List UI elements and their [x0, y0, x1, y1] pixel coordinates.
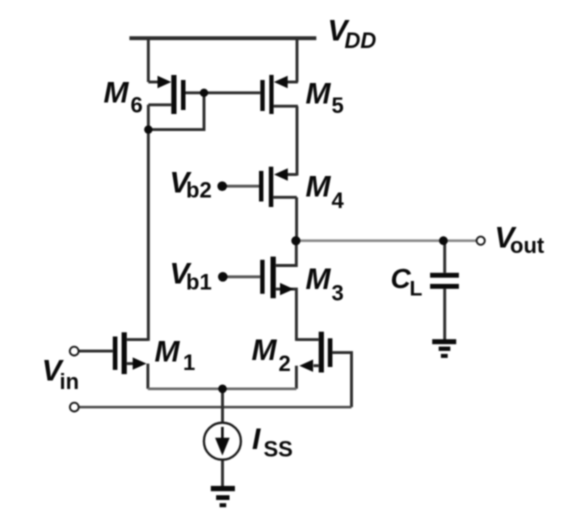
- svg-text:M: M: [104, 77, 130, 110]
- svg-text:M: M: [252, 334, 278, 367]
- svg-text:DD: DD: [345, 28, 377, 53]
- svg-text:M: M: [306, 78, 332, 111]
- svg-text:6: 6: [131, 92, 143, 117]
- svg-text:M: M: [306, 171, 332, 204]
- svg-text:5: 5: [332, 93, 344, 118]
- svg-text:3: 3: [332, 281, 344, 306]
- svg-text:M: M: [306, 263, 332, 296]
- svg-text:b2: b2: [186, 178, 212, 203]
- svg-text:in: in: [60, 369, 80, 394]
- svg-text:L: L: [410, 278, 423, 301]
- svg-text:1: 1: [183, 350, 195, 375]
- svg-text:out: out: [510, 233, 545, 258]
- svg-text:I: I: [252, 423, 261, 456]
- svg-text:b1: b1: [186, 269, 212, 294]
- svg-text:2: 2: [279, 351, 291, 376]
- svg-text:4: 4: [332, 188, 345, 213]
- svg-text:SS: SS: [264, 437, 293, 462]
- svg-text:C: C: [391, 263, 412, 294]
- svg-text:M: M: [155, 336, 181, 369]
